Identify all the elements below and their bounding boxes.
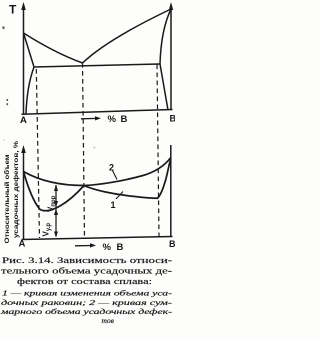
top graph: right axis arrowhead xyxy=(169,2,173,10)
bottom graph x-axis arrow xyxy=(75,245,92,247)
bottom graph: y axis arrowhead xyxy=(21,145,26,153)
top graph: right axis xyxy=(170,6,172,110)
dashed line eutectic composition xyxy=(83,63,85,238)
left liquidus xyxy=(24,33,83,63)
svg-text:тельного объема усадочных де-: тельного объема усадочных де- xyxy=(1,267,172,276)
dashed line left (alpha solubility limit) xyxy=(36,69,39,238)
svg-text:А: А xyxy=(20,115,27,126)
svg-text:1 — кривая изменения объема ус: 1 — кривая изменения объема уса- xyxy=(2,290,173,298)
svg-text:1: 1 xyxy=(111,200,116,210)
speck xyxy=(3,27,5,29)
right liquidus xyxy=(83,9,172,63)
dashed line right (beta solubility limit) xyxy=(157,65,159,238)
right solidus xyxy=(160,9,171,64)
svg-text:марного объема усадочных дефек: марного объема усадочных дефек- xyxy=(0,308,173,316)
svg-text:В: В xyxy=(169,239,175,249)
Vpor dimension arrow xyxy=(55,185,57,237)
svg-text:В: В xyxy=(121,114,128,125)
eutectic line xyxy=(34,64,160,67)
left solidus xyxy=(24,33,35,67)
svg-text:%: % xyxy=(103,242,112,253)
bottom graph: right axis xyxy=(170,145,172,237)
speck faint mid xyxy=(94,147,96,149)
speck colon xyxy=(7,99,9,101)
svg-text:дочных раковин; 2 — кривая сум: дочных раковин; 2 — кривая сум- xyxy=(1,299,173,307)
svg-text:Рис. 3.14. Зависимость относи-: Рис. 3.14. Зависимость относи- xyxy=(2,256,172,265)
svg-text:Т: Т xyxy=(9,3,17,17)
curve 1 shrinkage cavity volume xyxy=(24,159,171,211)
svg-text:А: А xyxy=(19,239,26,250)
svg-text:тов: тов xyxy=(102,316,115,325)
svg-text:фектов от состава сплава:: фектов от состава сплава: xyxy=(17,277,152,286)
right solvus xyxy=(160,64,168,110)
svg-text:В: В xyxy=(170,114,176,124)
paper background xyxy=(0,0,175,340)
top graph: temperature axis (left) xyxy=(23,5,25,114)
top graph: left axis arrowhead xyxy=(21,2,26,10)
top graph: x axis xyxy=(22,110,173,115)
svg-text:%: % xyxy=(108,114,117,125)
svg-text:Относительный объем: Относительный объем xyxy=(3,154,11,243)
svg-text:В: В xyxy=(117,242,124,253)
bottom graph: x axis xyxy=(22,237,173,240)
left solvus xyxy=(26,67,34,114)
top graph x-axis arrow xyxy=(81,117,97,119)
svg-text:усадочных дефектов, %: усадочных дефектов, % xyxy=(13,141,20,238)
curve 2 total shrinkage defects volume xyxy=(24,158,171,186)
bottom graph: y axis xyxy=(23,148,25,239)
